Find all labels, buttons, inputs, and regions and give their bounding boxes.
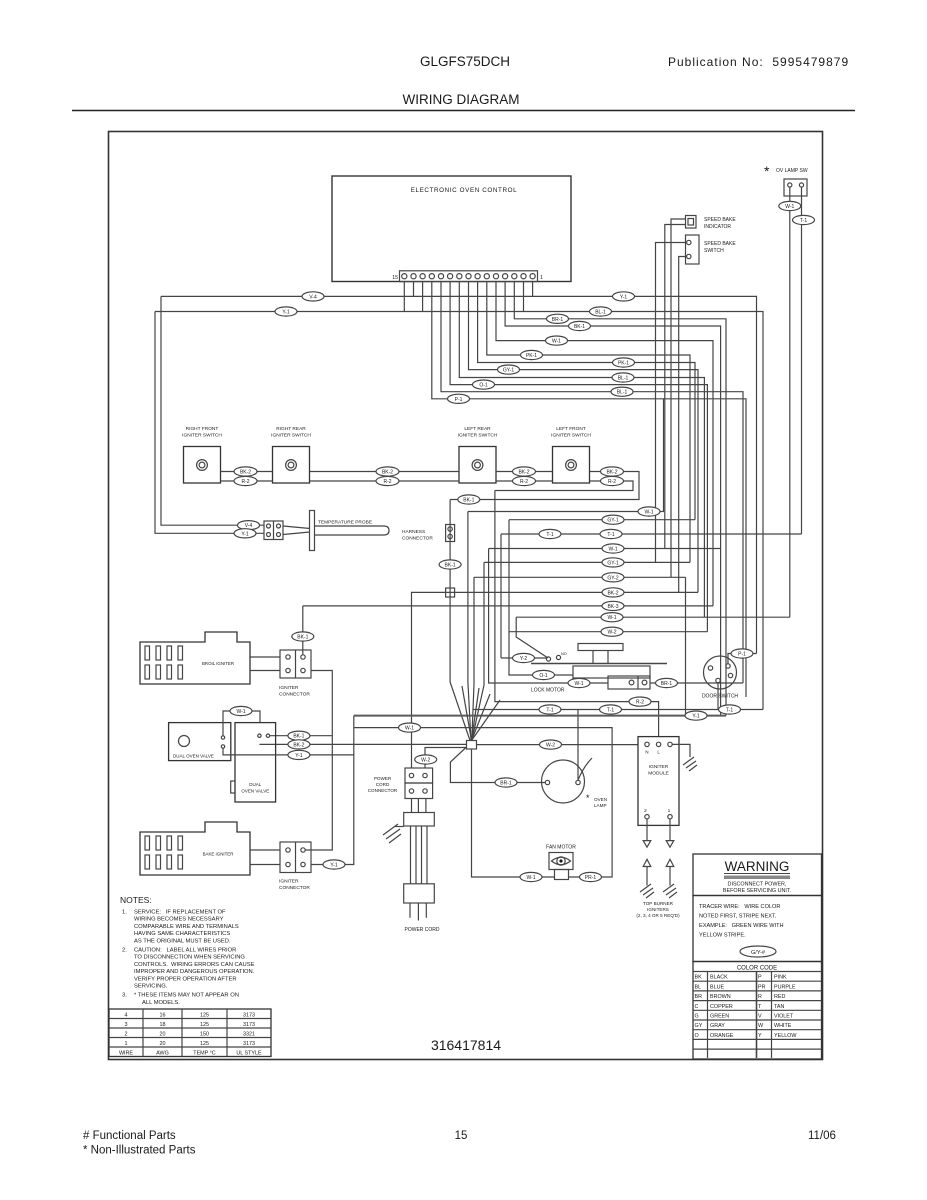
svg-text:IGNITER: IGNITER	[279, 685, 299, 691]
wire net P-1 run y=398.8	[432, 282, 746, 698]
wire net BL-2 run y=377.5	[459, 282, 704, 618]
svg-text:R: R	[758, 994, 762, 1000]
svg-text:3173: 3173	[243, 1022, 255, 1028]
svg-text:BL-1: BL-1	[618, 376, 629, 382]
svg-text:OVEN VALVE: OVEN VALVE	[241, 789, 269, 794]
svg-text:BROIL IGNITER: BROIL IGNITER	[202, 661, 234, 666]
svg-text:* Non-Illustrated Parts: * Non-Illustrated Parts	[83, 1145, 196, 1157]
svg-text:18: 18	[160, 1022, 166, 1028]
wire BK-2 chain seg2	[310, 471, 460, 473]
wire label BK-1	[569, 321, 591, 330]
svg-text:1: 1	[540, 275, 543, 281]
svg-text:1: 1	[668, 808, 671, 814]
wire R-2 chain seg1	[221, 480, 273, 482]
valve V1: dual oven valve body	[169, 723, 231, 761]
wire T-1 drop to oven lamp	[577, 710, 579, 780]
wire door switch bottom pin drop	[717, 683, 719, 710]
wire label Y-1	[685, 711, 707, 720]
wire label R-2	[601, 476, 624, 485]
wire junction west run	[259, 743, 466, 745]
svg-text:*: *	[764, 163, 770, 179]
switch S1: OV LAMP SW box	[784, 179, 807, 196]
svg-text:IGNITER SWITCH: IGNITER SWITCH	[271, 433, 311, 439]
svg-text:Y-1: Y-1	[241, 531, 249, 537]
svg-text:TAN: TAN	[774, 1004, 784, 1010]
svg-text:3173: 3173	[243, 1013, 255, 1019]
wire label GY-1	[498, 365, 520, 374]
svg-text:OV LAMP SW: OV LAMP SW	[776, 168, 808, 174]
wire BK-2 chain seg1	[221, 471, 273, 473]
wire label W-1	[638, 507, 660, 516]
wire broil connector to dual valve via x=332	[305, 671, 332, 851]
wire bake igniter leads	[250, 850, 280, 865]
switch S6: left front igniter switch	[551, 426, 591, 483]
svg-text:RIGHT FRONT: RIGHT FRONT	[186, 426, 219, 432]
ground at igniter module	[672, 744, 697, 771]
power cord plug assembly	[404, 799, 440, 934]
wire Y-1 valve lower run	[223, 748, 354, 755]
spark electrode pair below module	[636, 819, 680, 918]
wire net GY-2 mid run y=577.3	[474, 576, 686, 578]
svg-text:TRACER WIRE: WIRE COLOR: TRACER WIRE: WIRE COLOR	[699, 904, 780, 910]
wire label T-1	[539, 529, 561, 538]
svg-text:IGNITER: IGNITER	[649, 764, 669, 770]
svg-text:2: 2	[125, 1032, 128, 1038]
wire label BL-1	[612, 373, 634, 382]
notes text	[120, 895, 255, 1006]
wire label Y-1	[275, 307, 297, 316]
svg-text:15: 15	[455, 1130, 468, 1142]
wire label GY-1	[602, 558, 624, 567]
svg-text:GLGFS75DCH: GLGFS75DCH	[420, 54, 510, 69]
svg-text:BK-1: BK-1	[574, 324, 585, 330]
wire terminal 15a stub down	[403, 282, 405, 312]
svg-text:TEMP °C: TEMP °C	[193, 1051, 216, 1057]
svg-text:GY: GY	[695, 1023, 703, 1029]
svg-text:W-2: W-2	[546, 743, 555, 749]
svg-text:4: 4	[125, 1013, 128, 1019]
wire label GY-1	[602, 515, 624, 524]
svg-text:Y-1: Y-1	[282, 310, 290, 316]
svg-text:WIRING BECOMES NECESSARY: WIRING BECOMES NECESSARY	[134, 917, 224, 923]
wire speed bake switch lead b	[679, 257, 687, 593]
svg-text:BK-1: BK-1	[463, 498, 474, 504]
svg-text:SERVICE: IF REPLACEMENT OF: SERVICE: IF REPLACEMENT OF	[134, 910, 226, 916]
wire net BK-1 run y=326	[505, 282, 720, 716]
svg-text:PINK: PINK	[774, 975, 787, 981]
svg-text:BEFORE SERVICING UNIT.: BEFORE SERVICING UNIT.	[723, 888, 791, 894]
svg-text:BL-1: BL-1	[617, 390, 628, 396]
svg-text:NOTES:: NOTES:	[120, 895, 152, 905]
svg-text:DUAL: DUAL	[249, 782, 262, 787]
wire label W-1	[779, 201, 801, 210]
wire label Y-2	[513, 653, 535, 662]
lamp DS2: speed bake indicator	[686, 216, 737, 231]
svg-text:RED: RED	[774, 994, 785, 1000]
wire label O-1	[473, 380, 495, 389]
wire broil connector up to BK-3 run	[302, 606, 304, 655]
svg-text:Y-1: Y-1	[330, 863, 338, 869]
wire P-1 door switch feed	[728, 654, 757, 664]
svg-text:125: 125	[200, 1041, 209, 1047]
svg-text:11/06: 11/06	[808, 1130, 836, 1142]
svg-text:# Functional Parts: # Functional Parts	[83, 1130, 176, 1142]
svg-text:GRAY: GRAY	[710, 1023, 725, 1029]
svg-text:W-1: W-1	[607, 615, 616, 621]
wire t10 through harness to junction	[450, 500, 470, 741]
wire net Y-1 / V-4 top run y=296.4	[161, 282, 757, 654]
svg-text:POWER: POWER	[374, 776, 392, 781]
svg-text:IGNITER SWITCH: IGNITER SWITCH	[551, 433, 591, 439]
svg-text:R-2: R-2	[241, 479, 249, 485]
svg-text:BL-1: BL-1	[595, 310, 606, 316]
svg-text:W-1: W-1	[405, 726, 414, 732]
wire label PR-1	[580, 872, 602, 881]
wire label Y-1	[288, 750, 310, 759]
wire net GY-1 run y=369.6	[469, 282, 699, 593]
svg-text:2: 2	[644, 808, 647, 814]
svg-text:AS THE ORIGINAL MUST BE USED.: AS THE ORIGINAL MUST BE USED.	[134, 938, 231, 944]
svg-text:COLOR CODE: COLOR CODE	[737, 966, 777, 972]
wire label P-1	[731, 649, 753, 658]
svg-text:O-1: O-1	[479, 383, 488, 389]
svg-text:BK-1: BK-1	[445, 563, 456, 569]
svg-text:LAMP: LAMP	[594, 803, 607, 808]
svg-text:V: V	[758, 1014, 762, 1020]
svg-text:125: 125	[200, 1013, 209, 1019]
wire net W-1 run y=727.6 to fan motor	[354, 728, 612, 877]
svg-text:W-1: W-1	[644, 510, 653, 516]
wire speed bake indicator lead b	[665, 225, 686, 549]
svg-text:VIOLET: VIOLET	[774, 1014, 794, 1020]
svg-text:BK-1: BK-1	[297, 635, 308, 641]
wire label PK-1	[613, 358, 635, 367]
wire label W-1	[568, 678, 590, 687]
wire label W-1	[520, 872, 542, 881]
wire label BK-2	[234, 467, 257, 476]
wire label W-1	[399, 723, 421, 732]
wire O-1 to lock assembly	[509, 520, 573, 675]
relay K1: igniter module	[638, 737, 679, 826]
svg-text:W-2: W-2	[421, 758, 430, 764]
wire broil igniter leads	[250, 657, 280, 671]
svg-text:3.: 3.	[122, 993, 127, 999]
svg-text:BR-1: BR-1	[552, 317, 564, 323]
svg-text:BR-1: BR-1	[661, 681, 673, 687]
svg-text:GY-1: GY-1	[607, 518, 618, 524]
svg-text:P-1: P-1	[738, 652, 746, 658]
svg-text:BK-1: BK-1	[293, 734, 304, 740]
svg-text:BK-2: BK-2	[518, 470, 529, 476]
svg-text:SPEED BAKE: SPEED BAKE	[704, 241, 736, 247]
svg-text:LOCK MOTOR: LOCK MOTOR	[531, 688, 565, 694]
svg-text:WIRING DIAGRAM: WIRING DIAGRAM	[403, 92, 520, 107]
switch S5: left rear igniter switch	[458, 426, 498, 483]
wire OV lamp sw pin2 down	[801, 196, 803, 534]
wire label R-2	[629, 697, 651, 706]
svg-text:R-2: R-2	[520, 479, 528, 485]
svg-text:PK-1: PK-1	[526, 353, 537, 359]
svg-text:DOOR SWITCH: DOOR SWITCH	[702, 694, 738, 700]
wire label BK-1 valve top feed	[270, 735, 332, 737]
temperature probe connector	[264, 521, 283, 540]
svg-text:T: T	[758, 1004, 762, 1010]
wire label T-1	[719, 705, 741, 714]
svg-text:PR-1: PR-1	[585, 875, 597, 881]
wire R-2 chain seg2	[310, 480, 460, 482]
svg-text:O: O	[695, 1033, 699, 1039]
wire label W-1	[602, 544, 624, 553]
wire BK-2 chain seg4 to harness drop	[468, 472, 639, 500]
svg-text:T-1: T-1	[546, 708, 553, 714]
wire label Y-1	[613, 292, 635, 301]
svg-text:BK-2: BK-2	[240, 470, 251, 476]
svg-text:ORANGE: ORANGE	[710, 1033, 734, 1039]
svg-text:PK-1: PK-1	[618, 361, 629, 367]
svg-text:T-1: T-1	[726, 708, 733, 714]
wire label W-2	[601, 627, 623, 636]
wire label W-1	[601, 613, 623, 622]
warning box	[693, 854, 822, 896]
svg-text:SWITCH: SWITCH	[704, 248, 724, 254]
wire speed bake indicator lead a	[671, 219, 686, 577]
wire label T-1	[600, 705, 622, 714]
wire label P-1	[448, 394, 470, 403]
svg-text:UL STYLE: UL STYLE	[236, 1051, 262, 1057]
op-amp U1: electronic oven control box	[332, 176, 571, 282]
wire label R-2	[513, 476, 536, 485]
wire net W-1 run y=340.6	[496, 282, 713, 606]
heater R1: broil igniter	[140, 632, 250, 684]
svg-text:GY-1: GY-1	[503, 368, 514, 374]
svg-text:BR: BR	[695, 994, 703, 1000]
switch S2: speed bake switch	[686, 235, 737, 264]
svg-text:COPPER: COPPER	[710, 1004, 733, 1010]
svg-text:BL: BL	[695, 984, 702, 990]
svg-text:IGNITER SWITCH: IGNITER SWITCH	[182, 433, 222, 439]
svg-text:CONNECTOR: CONNECTOR	[279, 885, 310, 891]
svg-text:HAVING SAME CHARACTERISTICS: HAVING SAME CHARACTERISTICS	[134, 931, 230, 937]
wire label O-1	[533, 670, 555, 679]
svg-text:BROWN: BROWN	[710, 994, 731, 1000]
wire net W-2 mid run y=631.7	[509, 631, 707, 633]
svg-text:LEFT REAR: LEFT REAR	[464, 426, 491, 432]
wire power connector to junction	[425, 748, 467, 769]
node A: harness junction block	[462, 686, 500, 749]
wire junction to igniter module N	[477, 744, 645, 746]
svg-text:16: 16	[160, 1013, 166, 1019]
svg-text:BLACK: BLACK	[710, 975, 728, 981]
svg-text:WARNING: WARNING	[725, 859, 790, 874]
wire BR-1 lock motor to right bus	[650, 682, 743, 684]
svg-text:BK-2: BK-2	[606, 470, 617, 476]
svg-text:VERIFY PROPER OPERATION AFTER: VERIFY PROPER OPERATION AFTER	[134, 976, 237, 982]
wire speed bake switch lead a	[656, 243, 687, 563]
svg-text:DISCONNECT POWER,: DISCONNECT POWER,	[728, 882, 787, 888]
wire R-2 chain seg3	[496, 480, 553, 482]
svg-text:T-1: T-1	[800, 218, 807, 224]
svg-text:*: *	[586, 793, 590, 803]
svg-text:BR-1: BR-1	[500, 781, 512, 787]
svg-text:P-1: P-1	[455, 397, 463, 403]
wire label BL-1	[611, 387, 633, 396]
wire V-4 left vertical to probe	[161, 296, 264, 525]
svg-text:(2, 3, 4 OR 5 REQ'D): (2, 3, 4 OR 5 REQ'D)	[636, 913, 680, 918]
svg-text:NOTED FIRST, STRIPE NEXT.: NOTED FIRST, STRIPE NEXT.	[699, 914, 777, 920]
svg-text:Y-1: Y-1	[295, 753, 303, 759]
svg-text:W-2: W-2	[607, 630, 616, 636]
wire label BK-2	[601, 467, 624, 476]
switch S3: right front igniter switch	[182, 426, 222, 483]
switch S8: door switch	[702, 656, 738, 700]
wire net PK-2 run y=362.5	[478, 282, 695, 520]
svg-text:Publication No: 5995479879: Publication No: 5995479879	[668, 55, 849, 69]
svg-text:R-2: R-2	[383, 479, 391, 485]
wire net BR-1 run y=318.8	[514, 282, 726, 716]
wire label BK-2	[513, 467, 536, 476]
wire net BL-3 run y=391.7	[441, 282, 743, 684]
svg-text:125: 125	[200, 1022, 209, 1028]
svg-text:BK: BK	[695, 975, 703, 981]
wire label BK-1	[292, 632, 314, 641]
svg-text:20: 20	[160, 1032, 166, 1038]
node B: harness junction square	[446, 588, 455, 597]
svg-text:IGNITERS: IGNITERS	[647, 907, 669, 912]
svg-text:LEFT FRONT: LEFT FRONT	[556, 426, 586, 432]
svg-text:150: 150	[200, 1032, 209, 1038]
svg-text:R-2: R-2	[636, 700, 644, 706]
footer	[83, 1130, 836, 1157]
svg-text:1.: 1.	[122, 910, 127, 916]
wire label BK-2	[376, 467, 399, 476]
svg-text:T-1: T-1	[607, 532, 614, 538]
svg-text:3: 3	[125, 1022, 128, 1028]
motor M2: fan motor	[546, 845, 576, 880]
wire net GY-1 mid run y=519.7	[509, 519, 695, 521]
valve V2: dual oven valve second body	[231, 723, 276, 802]
wire terminal 15 stub down	[413, 282, 415, 297]
svg-text:HARNESS: HARNESS	[402, 529, 425, 535]
svg-text:3321: 3321	[243, 1032, 255, 1038]
svg-text:C: C	[695, 1004, 699, 1010]
svg-text:3173: 3173	[243, 1041, 255, 1047]
OV LAMP SW (asterisk + label)	[764, 163, 808, 179]
wire net O-1 run y=384.6	[450, 282, 707, 632]
svg-text:YELLOW STRIPE.: YELLOW STRIPE.	[699, 933, 746, 939]
svg-text:Y-1: Y-1	[620, 294, 628, 300]
wire W-1 valve link over top	[223, 711, 260, 736]
wire label BK-2 on junction west run	[288, 740, 310, 749]
svg-text:CORD: CORD	[376, 782, 390, 787]
svg-text:O-1: O-1	[539, 673, 548, 679]
tracer wire note box	[693, 896, 822, 962]
color code table	[693, 962, 822, 1060]
svg-text:BK-2: BK-2	[293, 742, 304, 748]
wire label T-1	[600, 529, 622, 538]
svg-text:TEMPERATURE PROBE: TEMPERATURE PROBE	[318, 520, 372, 526]
svg-text:V-4: V-4	[309, 294, 317, 300]
svg-text:CONNECTOR: CONNECTOR	[279, 692, 310, 698]
svg-text:PR: PR	[758, 984, 766, 990]
svg-text:MODULE: MODULE	[648, 771, 669, 777]
svg-text:RIGHT REAR: RIGHT REAR	[276, 426, 306, 432]
wire label GY-2	[602, 573, 624, 582]
wire label Y-1 bake	[323, 860, 345, 869]
svg-text:BK-2: BK-2	[607, 590, 618, 596]
wire label W-2	[415, 755, 437, 764]
svg-text:DUAL OVEN VALVE: DUAL OVEN VALVE	[173, 754, 214, 759]
svg-text:Y-2: Y-2	[520, 656, 528, 662]
svg-text:ELECTRONIC OVEN CONTROL: ELECTRONIC OVEN CONTROL	[411, 187, 518, 194]
wire label W-1	[546, 336, 568, 345]
wire gauge table	[109, 1009, 271, 1057]
svg-text:BK-2: BK-2	[382, 470, 393, 476]
wire net W-1 mid run y=511.5	[468, 399, 664, 512]
wire label V-4	[302, 292, 324, 301]
wire label BK-1	[439, 560, 461, 569]
connector J1: power cord connector	[368, 768, 433, 799]
wire label PK-1	[521, 350, 543, 359]
diagram border frame	[109, 132, 823, 1060]
svg-text:WIRE: WIRE	[119, 1051, 133, 1057]
wire label R-2	[234, 476, 257, 485]
svg-text:CAUTION: LABEL ALL WIRES PRI: CAUTION: LABEL ALL WIRES PRIOR	[134, 948, 236, 954]
svg-text:EXAMPLE: GREEN WIRE WITH: EXAMPLE: GREEN WIRE WITH	[699, 923, 784, 929]
svg-text:ALL MODELS.: ALL MODELS.	[142, 1000, 180, 1006]
wire label BK-3	[602, 601, 624, 610]
svg-text:W-1: W-1	[574, 681, 583, 687]
svg-text:T-1: T-1	[607, 708, 614, 714]
wire junction down to fan motor	[472, 749, 555, 877]
svg-text:Y: Y	[758, 1033, 762, 1039]
svg-text:G/Y-#: G/Y-#	[751, 950, 766, 956]
svg-text:PURPLE: PURPLE	[774, 984, 796, 990]
svg-text:20: 20	[160, 1041, 166, 1047]
wire label T-1	[793, 215, 815, 224]
svg-text:GREEN: GREEN	[710, 1014, 729, 1020]
svg-text:N: N	[645, 750, 648, 755]
svg-text:T-1: T-1	[546, 532, 553, 538]
wire vertical bus x=353.8	[311, 716, 354, 865]
svg-text:W-1: W-1	[608, 547, 617, 553]
wire net W-1 mid run y=617.2 from OV lamp sw	[516, 616, 790, 618]
wire net T-1 mid run y=534 to OV lamp sw	[501, 533, 802, 535]
svg-text:WHITE: WHITE	[774, 1023, 792, 1029]
svg-text:BK-3: BK-3	[607, 604, 618, 610]
wire drop from W-1 run to junction	[468, 512, 471, 741]
svg-text:IMPROPER AND DANGEROUS OPERATI: IMPROPER AND DANGEROUS OPERATION.	[134, 969, 255, 975]
wire label BR-1	[656, 678, 678, 687]
wire BK-2 chain seg3	[496, 471, 553, 473]
wire label W-1	[230, 706, 252, 715]
svg-text:W-1: W-1	[552, 339, 561, 345]
svg-text:Y-1: Y-1	[692, 714, 700, 720]
svg-text:G: G	[695, 1014, 699, 1020]
lamp DS1: oven lamp	[542, 758, 608, 808]
svg-text:W-1: W-1	[526, 875, 535, 881]
svg-text:15: 15	[392, 275, 398, 281]
wire T-1 lamp run y=709.5	[473, 709, 763, 711]
svg-text:FAN MOTOR: FAN MOTOR	[546, 845, 576, 851]
wire net W-1 mid run y=548.5	[489, 548, 721, 550]
svg-text:TOP BURNER: TOP BURNER	[643, 901, 674, 906]
svg-text:COMPARABLE WIRE AND TERMINALS: COMPARABLE WIRE AND TERMINALS	[134, 924, 239, 930]
svg-text:GY-2: GY-2	[607, 575, 618, 581]
wire net Y-1 thick run y=715.6	[354, 715, 726, 717]
wire label BK-2	[602, 588, 624, 597]
svg-text:SERVICING.: SERVICING.	[134, 984, 168, 990]
wire BR-1 junction to oven lamp	[450, 747, 545, 783]
